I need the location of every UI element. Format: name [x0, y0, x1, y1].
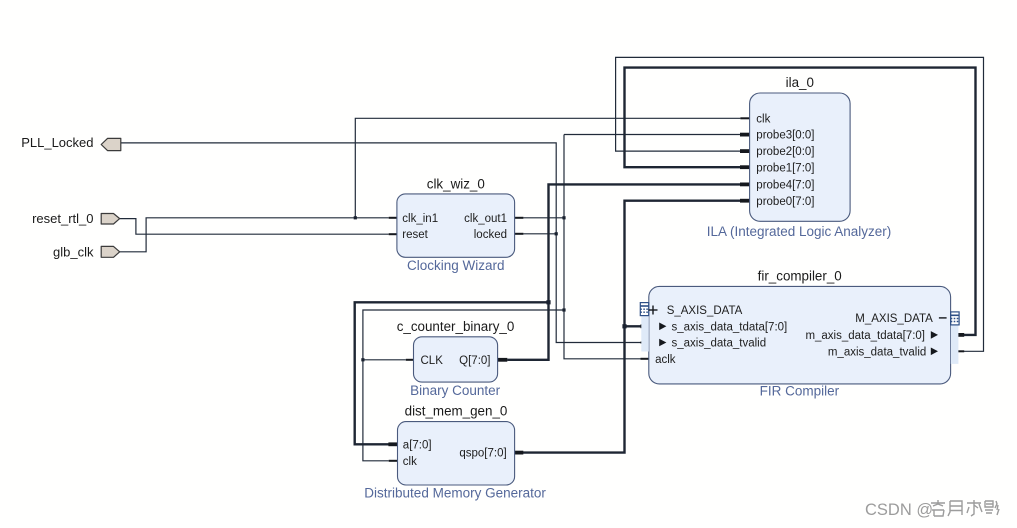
svg-text:fir_compiler_0: fir_compiler_0	[758, 268, 842, 283]
interface strip S_AXIS	[641, 303, 649, 352]
wire clk_out1 to counter CLK stub	[363, 359, 406, 361]
wire clk_out1 to fir aclk	[564, 310, 641, 359]
svg-text:FIR Compiler: FIR Compiler	[760, 383, 840, 398]
pin stub fir s_axis_data_tdata	[641, 324, 650, 328]
block clk_wiz_0	[397, 194, 515, 257]
pin stub counter Q	[497, 358, 507, 362]
pin stub ila clk	[740, 117, 750, 119]
interface strip M_AXIS	[951, 312, 959, 364]
wire locked to s_axis_data_tvalid	[556, 234, 641, 343]
plus before S_AXIS_DATA	[649, 306, 658, 315]
svg-text:clk: clk	[403, 456, 417, 468]
pin stub locked	[514, 233, 523, 235]
svg-text:probe4[7:0]: probe4[7:0]	[756, 180, 814, 192]
junction Q net	[546, 300, 550, 304]
interface pin icon M_AXIS_DATA	[951, 312, 959, 325]
svg-text:a[7:0]: a[7:0]	[403, 439, 432, 451]
block c_counter_binary_0	[414, 337, 498, 382]
svg-text:Clocking Wizard: Clocking Wizard	[407, 258, 505, 273]
pin stub dist qspo	[514, 451, 523, 455]
wire m_axis_data_tvalid to probe2 loop	[616, 57, 984, 351]
ext port glb_clk	[101, 246, 120, 257]
watermark glyph yue	[948, 501, 962, 516]
wire m_axis_data_tdata to probe1 bus	[625, 68, 976, 335]
svg-text:m_axis_data_tdata[7:0]: m_axis_data_tdata[7:0]	[805, 330, 925, 342]
wire qspo to s_axis_data_tdata bus	[625, 325, 641, 327]
junction clk_out1	[562, 216, 565, 219]
svg-text:CLK: CLK	[421, 355, 444, 367]
svg-text:qspo[7:0]: qspo[7:0]	[459, 448, 506, 460]
pin stub clk_in1	[389, 217, 398, 219]
svg-text:clk_in1: clk_in1	[402, 213, 438, 225]
svg-text:glb_clk: glb_clk	[53, 245, 94, 260]
svg-text:S_AXIS_DATA: S_AXIS_DATA	[667, 305, 743, 317]
svg-text:Distributed Memory Generator: Distributed Memory Generator	[364, 486, 546, 501]
pin stub ila probe4	[740, 183, 750, 187]
junction qspo net	[622, 324, 626, 328]
svg-text:s_axis_data_tdata[7:0]: s_axis_data_tdata[7:0]	[672, 321, 788, 333]
ext port PLL_Locked	[101, 138, 121, 150]
wire clk_out1 vertical	[563, 135, 565, 311]
junction locked	[555, 232, 558, 235]
svg-text:M_AXIS_DATA: M_AXIS_DATA	[855, 313, 933, 325]
wire reset_rtl_0 to reset	[120, 219, 389, 235]
wire glb_clk to clk_in1	[120, 218, 389, 252]
svg-text:reset: reset	[402, 229, 428, 241]
watermark glyph ying	[985, 501, 999, 515]
pin stub fir s_axis_data_tvalid	[641, 342, 650, 344]
pin stub counter CLK	[406, 359, 414, 361]
svg-text:probe2[0:0]: probe2[0:0]	[756, 146, 814, 158]
pin stub fir m_axis_data_tdata	[950, 333, 964, 337]
watermark glyph cheng	[967, 500, 982, 516]
pin stub reset	[389, 233, 398, 235]
block fir_compiler_0	[649, 286, 951, 384]
svg-text:PLL_Locked: PLL_Locked	[21, 135, 93, 150]
svg-text:ILA (Integrated Logic Analyzer: ILA (Integrated Logic Analyzer)	[707, 224, 892, 239]
pin stub fir m_axis_data_tvalid	[950, 350, 964, 352]
ext port reset_rtl_0	[101, 214, 120, 225]
wire clk_out1 to counter CLK branch	[363, 310, 564, 461]
svg-text:locked: locked	[474, 229, 507, 241]
svg-text:c_counter_binary_0: c_counter_binary_0	[397, 319, 515, 334]
svg-text:s_axis_data_tvalid: s_axis_data_tvalid	[672, 338, 767, 350]
svg-text:clk_wiz_0: clk_wiz_0	[427, 176, 485, 191]
pin stub ila probe2	[740, 149, 750, 153]
svg-text:CSDN @: CSDN @	[865, 501, 933, 519]
pin stub clk_out1	[514, 217, 523, 219]
watermark glyph cang	[931, 500, 999, 516]
junction counter clk	[361, 358, 364, 361]
wire clk_out1 net trunk	[523, 217, 564, 219]
wire Q[7:0] to a[7:0] bus	[355, 302, 549, 444]
svg-text:aclk: aclk	[655, 354, 676, 366]
wire locked to PLL_Locked	[121, 143, 556, 234]
junction clk_out1 lower	[562, 308, 565, 311]
block ila_0	[750, 93, 851, 221]
port arrow s_axis_data_tvalid	[659, 339, 666, 347]
svg-text:probe3[0:0]: probe3[0:0]	[756, 130, 814, 142]
wire Q[7:0] to probe4 bus	[507, 184, 740, 359]
svg-text:clk_out1: clk_out1	[464, 213, 507, 225]
svg-text:clk: clk	[756, 113, 770, 125]
port arrow m_axis_data_tvalid	[931, 348, 938, 356]
port arrow s_axis_data_tdata	[659, 323, 666, 331]
block dist_mem_gen_0	[398, 422, 515, 485]
svg-text:probe1[7:0]: probe1[7:0]	[756, 162, 814, 174]
svg-text:Binary Counter: Binary Counter	[410, 383, 501, 398]
svg-text:Q[7:0]: Q[7:0]	[459, 355, 490, 367]
pin stub dist a	[388, 442, 397, 446]
wire clk_out1 to probe3	[564, 134, 740, 136]
svg-text:reset_rtl_0: reset_rtl_0	[32, 211, 93, 226]
wire qspo to probe0 bus	[523, 201, 741, 453]
interface pin icon S_AXIS_DATA	[640, 303, 648, 316]
svg-text:ila_0: ila_0	[786, 75, 814, 90]
svg-text:dist_mem_gen_0: dist_mem_gen_0	[405, 404, 508, 419]
junction glb_clk/ila-clk	[354, 216, 357, 219]
port arrow m_axis_data_tdata	[931, 331, 938, 339]
minus after M_AXIS_DATA	[939, 317, 947, 319]
pin stub dist clk	[389, 460, 398, 462]
pin stub fir aclk	[641, 358, 650, 360]
pin stub ila probe0	[740, 199, 750, 203]
svg-text:probe0[7:0]: probe0[7:0]	[756, 196, 814, 208]
wire glb_clk branch to ila clk	[355, 118, 740, 218]
pin stub ila probe3	[740, 133, 750, 137]
svg-text:m_axis_data_tvalid: m_axis_data_tvalid	[828, 346, 926, 358]
pin stub ila probe1	[740, 165, 750, 169]
